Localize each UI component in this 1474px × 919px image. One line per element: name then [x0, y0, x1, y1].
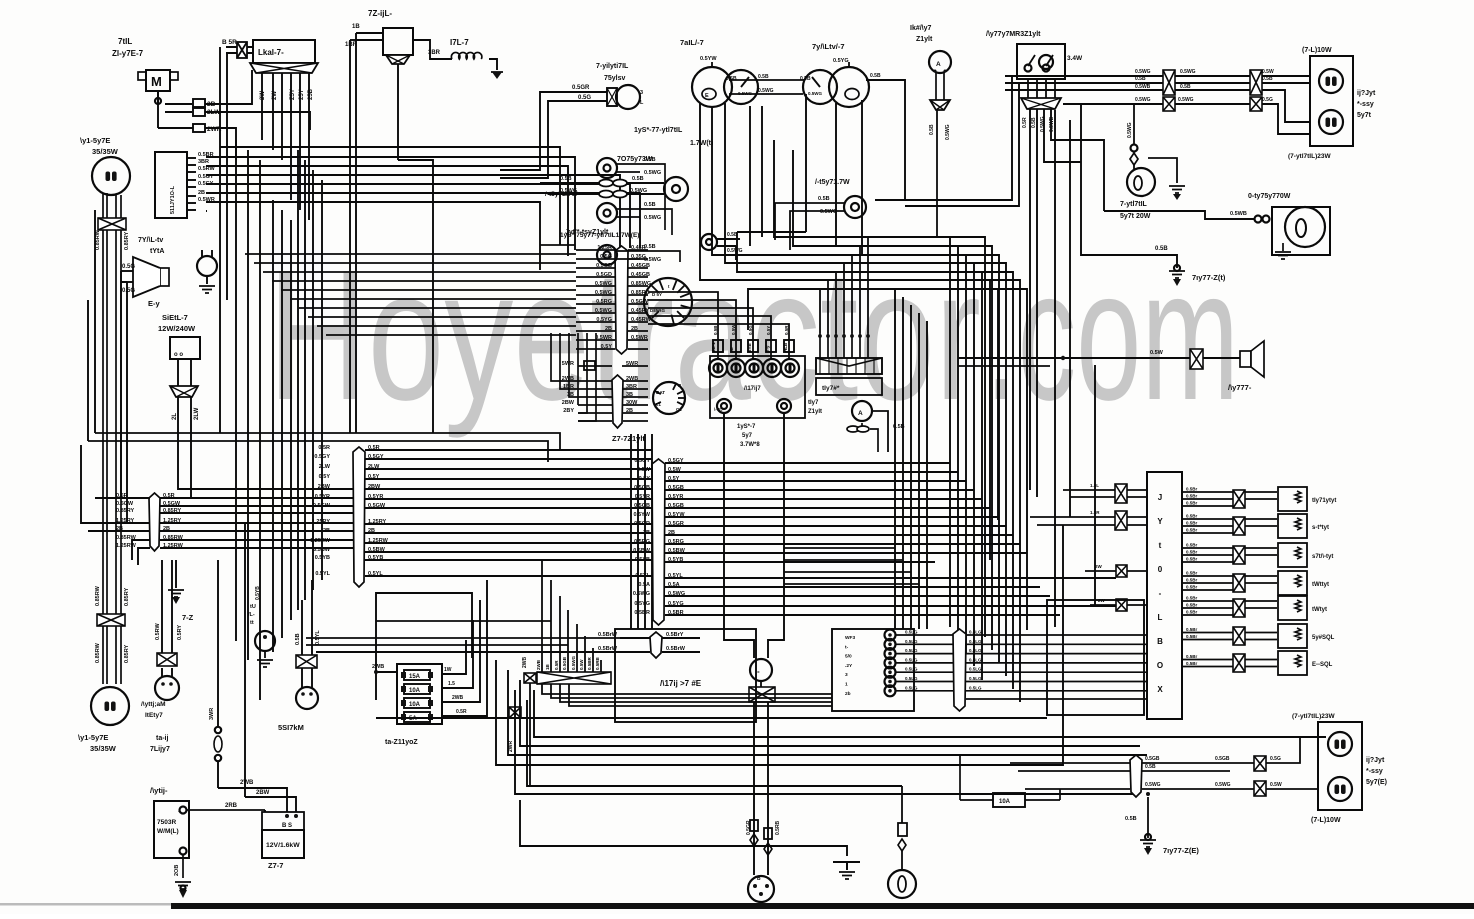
svg-text:0.5BW: 0.5BW	[313, 547, 331, 553]
highgrip terminal labels	[711, 342, 788, 352]
svg-text:0.5W: 0.5W	[637, 467, 651, 473]
svg-text:2WB: 2WB	[240, 780, 254, 786]
svg-text:5SI7kM: 5SI7kM	[278, 723, 304, 732]
svg-text:L: L	[1158, 613, 1163, 622]
svg-text:s-t*tyt: s-t*tyt	[1312, 525, 1329, 531]
wire backup 1	[1029, 109, 1031, 490]
connector 5WR	[584, 361, 595, 370]
svg-text:tIy71ytyt: tIy71ytyt	[1312, 498, 1336, 504]
svg-text:0.5WG: 0.5WG	[1135, 69, 1151, 75]
svg-text:B: B	[757, 876, 761, 882]
svg-text:0.5B: 0.5B	[800, 76, 811, 82]
svg-text:0.5YR: 0.5YR	[368, 494, 383, 500]
wire maze run 4	[737, 232, 1013, 689]
svg-text:WF3: WF3	[845, 635, 855, 641]
tail10W label left	[1311, 817, 1341, 824]
svg-text:0.5LG: 0.5LG	[905, 639, 918, 644]
svg-text:0.5GB: 0.5GB	[634, 503, 650, 509]
svg-text:7aIL/-7: 7aIL/-7	[680, 38, 704, 47]
svg-text:0.5YB: 0.5YB	[635, 557, 650, 563]
wire CN0 row 0.5R	[116, 493, 356, 499]
svg-text:2BW: 2BW	[562, 400, 575, 406]
rear comb label left	[1366, 757, 1387, 786]
temp sensor	[197, 250, 217, 293]
svg-text:2B: 2B	[631, 326, 638, 332]
wire glow relay drop	[398, 64, 433, 433]
starter label	[268, 861, 283, 870]
wire comb row 2B	[576, 326, 648, 332]
highgrip terminals bottom	[717, 399, 791, 413]
svg-text:0.5WG: 0.5WG	[644, 257, 661, 263]
svg-text:tWtyt: tWtyt	[1312, 607, 1327, 613]
svg-text:0.5W: 0.5W	[731, 324, 736, 335]
svg-text:0.5YG: 0.5YG	[668, 601, 684, 607]
wire bundle row R 2B	[643, 530, 1013, 536]
svg-text:o o: o o	[174, 352, 183, 358]
wire long y746	[520, 680, 1140, 746]
svg-text:0.5LG: 0.5LG	[969, 685, 982, 690]
regulator label box	[253, 40, 315, 63]
wire step horiz 2	[784, 571, 911, 573]
wire relay row 4	[896, 667, 1147, 673]
svg-text:12W/240W: 12W/240W	[158, 324, 196, 333]
svg-text:7Y/\L-tv: 7Y/\L-tv	[138, 237, 163, 244]
svg-text:/\17ij7: /\17ij7	[744, 386, 761, 392]
svg-text:Zl-y7E-7: Zl-y7E-7	[112, 49, 144, 58]
wire buzzer lower	[958, 365, 1050, 367]
svg-text:0.5Br: 0.5Br	[1186, 610, 1198, 615]
wire fuse link to starter S	[218, 780, 287, 812]
svg-text:0.5R: 0.5R	[456, 709, 467, 715]
wire relay extra row	[966, 698, 1147, 700]
wire mid drop V1	[902, 297, 904, 629]
fender earth right label	[1192, 273, 1226, 282]
wire buzzer	[958, 350, 1190, 360]
wire right extra V1	[957, 246, 959, 640]
wire riser 0.5WG	[571, 624, 577, 672]
wire 2nd drop	[244, 523, 246, 797]
svg-text:0.5RW: 0.5RW	[155, 622, 161, 640]
wire comb row 1.25R	[576, 245, 648, 251]
svg-text:0.85WG: 0.85WG	[631, 281, 651, 287]
wire CN0 left leads	[81, 445, 150, 565]
wire row y211	[206, 210, 207, 212]
svg-text:2B: 2B	[605, 326, 612, 332]
wire check feed 1	[827, 280, 829, 333]
svg-text:ta-Z11yoZ: ta-Z11yoZ	[385, 739, 418, 746]
svg-text:0.5BW: 0.5BW	[668, 548, 686, 554]
svg-text:2RB: 2RB	[225, 803, 238, 809]
svg-text:3BR: 3BR	[626, 384, 637, 390]
working lamp box	[1272, 207, 1330, 255]
svg-text:0.5Br: 0.5Br	[1186, 634, 1198, 639]
wire maze run 1	[793, 150, 992, 650]
wire comb rows left	[500, 254, 576, 335]
wire bundle right bends	[0, 0, 1, 1]
wire bundle row R 0.5RG	[634, 539, 1020, 545]
indicator turnsignal left label	[560, 232, 639, 239]
svg-text:0.5YL: 0.5YL	[315, 571, 330, 577]
sensor row 7 connector	[1233, 654, 1245, 672]
working lamp label	[1248, 193, 1291, 200]
svg-text:SiEtL-7: SiEtL-7	[162, 313, 188, 322]
turnsignal23W label left	[1292, 713, 1335, 720]
noto lamp label L	[545, 191, 578, 198]
svg-text:0.5W: 0.5W	[668, 467, 682, 473]
main shift back switch label	[910, 25, 933, 43]
wire relay row 1	[896, 639, 1147, 645]
svg-text:0.85RW: 0.85RW	[163, 535, 184, 541]
svg-text:2B: 2B	[163, 526, 170, 532]
sensor row 6 connector	[1233, 627, 1245, 645]
wire 5WR row	[562, 361, 648, 367]
wire meter drops	[700, 94, 862, 275]
svg-text:/\ytij-: /\ytij-	[150, 786, 168, 795]
svg-text:0.5GY: 0.5GY	[634, 458, 650, 464]
svg-text:0.5WG: 0.5WG	[595, 281, 612, 287]
svg-text:/\y77y7MR3Z1ylt: /\y77y7MR3Z1ylt	[986, 31, 1041, 38]
wire starter row 3B	[567, 392, 648, 398]
svg-text:5YB: 5YB	[747, 342, 752, 352]
wire generator to bundle	[178, 397, 355, 498]
wire bundle row R 0.5BW	[633, 548, 1027, 554]
wire comb row 0.5G	[576, 254, 648, 260]
sensor row 1 wires	[1182, 487, 1277, 507]
svg-text:0.5W: 0.5W	[1150, 350, 1164, 356]
fuse box label	[385, 739, 418, 746]
wire bundle row R 0.5GR	[634, 521, 1006, 527]
temp meter label	[812, 42, 845, 51]
wire starter row 1BR	[563, 384, 648, 390]
wire bundle row R 0.5YL	[635, 573, 1116, 579]
svg-text:0.5Br: 0.5Br	[1186, 654, 1198, 659]
svg-text:0.5GW: 0.5GW	[313, 503, 331, 509]
svg-text:0.5B: 0.5B	[1180, 84, 1191, 90]
svg-text:0.5GR: 0.5GR	[746, 820, 752, 835]
earth label	[182, 613, 194, 622]
svg-text:0.5LG: 0.5LG	[969, 676, 982, 681]
wire riser 0.5RB	[595, 656, 601, 672]
fuse 10A2	[401, 698, 433, 708]
sensor row 4 connector	[1233, 574, 1245, 592]
svg-text:1.25RW: 1.25RW	[163, 543, 184, 549]
wire row y166	[206, 166, 568, 256]
connector bar CN3	[615, 246, 628, 354]
wire to starter B	[245, 790, 296, 812]
connector rear left B	[1254, 781, 1266, 796]
svg-text:0.5GW: 0.5GW	[163, 501, 181, 507]
svg-text:E: E	[705, 93, 709, 99]
wire left bundle v2	[226, 53, 228, 300]
main shift back switch connector	[930, 100, 950, 110]
svg-text:(7-L)10W: (7-L)10W	[1311, 817, 1341, 824]
wire maze run 2	[712, 192, 999, 663]
svg-text:0.5WG: 0.5WG	[808, 91, 823, 96]
svg-text:0.5WG: 0.5WG	[758, 88, 774, 94]
sensor row 2 connector	[1233, 517, 1245, 535]
wire row y245	[540, 244, 575, 246]
svg-text:/-t5y71.7W: /-t5y71.7W	[815, 179, 850, 186]
svg-text:-: -	[1159, 589, 1162, 598]
wire comb row 0.5YG	[576, 317, 652, 323]
svg-text:0.5R: 0.5R	[318, 445, 330, 451]
svg-text:0.5B: 0.5B	[818, 196, 830, 202]
wire step horiz 0	[784, 547, 895, 549]
svg-text:W/M(L): W/M(L)	[157, 828, 179, 835]
noto lamp right	[775, 196, 866, 250]
svg-text:0.5GB: 0.5GB	[634, 485, 650, 491]
svg-text:/-t5y7L.7W: /-t5y7L.7W	[545, 191, 578, 198]
sensor row 2 wires	[1182, 514, 1277, 534]
svg-text:Lkal-7-: Lkal-7-	[258, 48, 284, 57]
svg-text:0.5GW: 0.5GW	[116, 501, 134, 507]
svg-text:0.5WG: 0.5WG	[1135, 97, 1151, 103]
starter rows left leads	[551, 333, 596, 421]
svg-text:7-yilyti7IL: 7-yilyti7IL	[596, 63, 629, 70]
wire check feed 0	[819, 289, 821, 333]
svg-text:0.5WG: 0.5WG	[820, 209, 837, 215]
svg-text:0.5WG: 0.5WG	[668, 591, 685, 597]
svg-text:0.5YW: 0.5YW	[668, 512, 685, 518]
wire center drop V0	[630, 434, 632, 629]
wire long y737	[534, 690, 1326, 737]
flasher leads	[500, 85, 607, 178]
svg-text:0.5B: 0.5B	[893, 424, 905, 430]
svg-text:0.5W: 0.5W	[1262, 69, 1274, 75]
svg-text:2B: 2B	[643, 530, 650, 536]
svg-text:1.25RY: 1.25RY	[368, 519, 386, 525]
svg-text:0.5B: 0.5B	[1125, 816, 1137, 822]
connector tail B	[1163, 97, 1175, 111]
wire long y765	[496, 525, 1063, 765]
rear comb lamp left box	[1318, 722, 1362, 810]
svg-text:-: -	[757, 667, 760, 676]
svg-text:0.5YW: 0.5YW	[700, 56, 717, 62]
svg-text:7y/\Ltv/-7: 7y/\Ltv/-7	[812, 42, 845, 51]
svg-text:0.5LG: 0.5LG	[905, 648, 918, 653]
svg-text:2B: 2B	[323, 528, 330, 534]
wire comb row 0.5RG	[576, 299, 649, 305]
wire mid drop V3	[918, 313, 920, 629]
wire left bundle V6	[272, 200, 274, 652]
wire y433 runs	[88, 433, 560, 462]
svg-text:0.5RY: 0.5RY	[177, 625, 183, 640]
wire center drop V3	[651, 434, 653, 629]
wire CN0 row 1.25RW	[116, 543, 356, 549]
wire turnsignal lamp drop	[1127, 104, 1138, 169]
wire maze run 3	[725, 202, 1006, 676]
svg-text:0.5R: 0.5R	[368, 445, 380, 451]
wire bundle row L 0.5YL	[315, 571, 652, 577]
svg-text:0.5Br: 0.5Br	[1186, 578, 1198, 583]
relay unit labels	[845, 635, 855, 697]
svg-text:0.5B: 0.5B	[1155, 246, 1168, 252]
svg-text:tt: tt	[250, 620, 254, 626]
svg-text:3.4W: 3.4W	[1067, 55, 1083, 62]
cb left row4	[1090, 598, 1147, 611]
working lamp bulb	[1285, 207, 1325, 247]
svg-text:tYtA: tYtA	[150, 248, 164, 255]
light control stubs	[187, 152, 216, 210]
svg-text:3BR: 3BR	[198, 159, 209, 165]
svg-text:0.5RG: 0.5RG	[634, 539, 650, 545]
svg-text:B S: B S	[282, 823, 292, 829]
wire riser 0.5GB	[562, 610, 568, 672]
wire mid drop V4	[926, 321, 928, 629]
svg-text:2LW: 2LW	[194, 407, 200, 420]
radiator connector	[295, 580, 321, 668]
wire box around cb feeds	[1047, 600, 1144, 715]
sensor row 4 label	[1312, 582, 1329, 588]
wire maze run 0	[774, 140, 985, 637]
wire CN0 row 2B	[116, 526, 356, 532]
svg-text:(7-L)10W: (7-L)10W	[1302, 47, 1332, 54]
sensor row 7 label	[1312, 662, 1333, 668]
svg-text:1.25RW: 1.25RW	[116, 543, 137, 549]
svg-text:0.5G: 0.5G	[748, 325, 753, 335]
svg-text:0.5YG: 0.5YG	[833, 58, 849, 64]
wire fender earth left	[1125, 792, 1150, 838]
wire riser 1B	[545, 580, 551, 672]
battery label	[150, 786, 168, 795]
svg-text:tB: tB	[729, 347, 734, 352]
svg-text:0.5LG: 0.5LG	[905, 657, 918, 662]
wire bundle row R 0.5BR	[634, 610, 1060, 616]
sensor row 4 box	[1278, 571, 1307, 595]
svg-text:0.5WB: 0.5WB	[1230, 211, 1247, 217]
wire left bundle v1	[219, 47, 221, 433]
svg-text:0.5WG: 0.5WG	[644, 215, 661, 221]
wire backup 4	[1051, 109, 1104, 211]
svg-text:\-7t7: \-7t7	[714, 407, 724, 412]
svg-text:1W: 1W	[444, 667, 452, 673]
sensor row 5 label	[1312, 607, 1327, 613]
headlamp left label	[78, 733, 117, 753]
rear lamp right bulb 2	[1319, 110, 1343, 134]
wire tail row3	[1005, 84, 1310, 122]
connector bar CN4	[612, 375, 623, 428]
svg-text:30W: 30W	[626, 400, 638, 406]
svg-text:0.5R: 0.5R	[1022, 117, 1028, 128]
svg-text:0.5YL: 0.5YL	[668, 573, 683, 579]
wire long y786	[527, 700, 902, 786]
fuse 10A box	[993, 793, 1025, 807]
wire bundle row R 0.5YW	[633, 512, 998, 518]
wire row y157	[206, 157, 575, 250]
wire right extra V5	[989, 280, 991, 560]
connector buzzer	[1190, 349, 1203, 369]
svg-text:0.5LG: 0.5LG	[969, 639, 982, 644]
wire CN0 row 0.85RY	[116, 508, 356, 514]
svg-text:0.5RB: 0.5RB	[595, 656, 600, 670]
svg-text:7-ytl7tIL: 7-ytl7tIL	[1120, 201, 1148, 208]
indicator lamp 1	[597, 157, 661, 178]
wire fender earth right feed	[1081, 105, 1177, 268]
svg-text:2B: 2B	[668, 530, 675, 536]
svg-text:1.5: 1.5	[448, 681, 455, 687]
wire highgrip feed 0	[648, 292, 723, 360]
wire upper horiz y621	[376, 620, 551, 622]
wire backup 2	[1036, 109, 1038, 497]
wire comb row 0.5WG	[576, 290, 650, 296]
svg-text:1: 1	[845, 682, 848, 688]
svg-text:2WB: 2WB	[626, 376, 638, 382]
svg-text:0.5B: 0.5B	[1262, 76, 1273, 82]
fuel meter	[692, 56, 758, 107]
svg-text:ij?Jyt: ij?Jyt	[1357, 90, 1376, 97]
svg-text:0.5B: 0.5B	[713, 325, 718, 335]
check unit box	[816, 378, 882, 395]
highgrip equip box	[615, 629, 756, 722]
wire highgrip feed 1	[648, 300, 741, 360]
svg-text:5y7(E): 5y7(E)	[1366, 779, 1387, 786]
svg-text:J: J	[1158, 493, 1162, 502]
wire check feed 6	[867, 237, 869, 333]
battery fluid connector	[155, 560, 183, 666]
wire riser 0.5R	[554, 596, 560, 672]
wire mid drop V0	[894, 289, 896, 629]
wire bundle row R 0.5W	[637, 467, 958, 473]
svg-text:0.5B: 0.5B	[726, 76, 737, 82]
svg-text:(7-ytl7tIL)23W: (7-ytl7tIL)23W	[1288, 153, 1331, 160]
relay unit box	[832, 629, 914, 711]
wire battery to starter	[187, 803, 265, 812]
svg-text:0.5WG: 0.5WG	[1180, 69, 1196, 75]
svg-text:0.5B: 0.5B	[929, 124, 935, 135]
svg-text:10A: 10A	[409, 702, 421, 708]
svg-text:Z1ylt: Z1ylt	[808, 409, 822, 415]
svg-text:5A: 5A	[409, 716, 417, 722]
turn signal lamp right	[1127, 168, 1155, 196]
svg-text:/\y777-: /\y777-	[1228, 383, 1252, 392]
ground battery	[175, 882, 191, 898]
wire CN0 row 0.5GW	[116, 501, 356, 507]
svg-text:7ıy77-Z(E): 7ıy77-Z(E)	[1163, 846, 1199, 855]
svg-text:0.5LG: 0.5LG	[905, 676, 918, 681]
indicator lamp 3	[597, 244, 661, 265]
svg-text:0.5GR: 0.5GR	[668, 521, 684, 527]
svg-text:0.5WG: 0.5WG	[727, 248, 743, 254]
svg-text:5WR: 5WR	[562, 361, 574, 367]
svg-text:0.5Br: 0.5Br	[1186, 501, 1198, 506]
svg-text:0.5Br: 0.5Br	[1186, 627, 1198, 632]
svg-text:tIy7: tIy7	[808, 400, 819, 406]
wire step horiz 3	[784, 583, 919, 585]
svg-text:3: 3	[640, 90, 643, 96]
glow relay label	[368, 9, 392, 18]
wire bundle row L 2LW	[319, 464, 652, 470]
wire mid drop V2	[910, 305, 912, 629]
svg-text:0.5YB: 0.5YB	[255, 586, 261, 600]
wire row y184	[206, 184, 630, 248]
wire headlamp right down A	[103, 193, 107, 684]
svg-text:0.5GB: 0.5GB	[562, 656, 567, 670]
svg-text:0.5Br: 0.5Br	[1186, 514, 1198, 519]
wire relay row 5	[896, 676, 1147, 682]
svg-text:0.5YR: 0.5YR	[668, 494, 683, 500]
starter switch label	[612, 434, 645, 443]
headlamp right label	[80, 136, 119, 156]
svg-text:0.5G: 0.5G	[1262, 97, 1273, 103]
wire tail row2	[1005, 76, 1310, 83]
sensor row 7 wires	[1182, 654, 1277, 667]
wire riser 0.5W	[579, 636, 585, 672]
svg-text:511JY1O-L: 511JY1O-L	[170, 185, 176, 214]
svg-text:Z1ylt: Z1ylt	[916, 36, 933, 43]
svg-text:0.5GY: 0.5GY	[368, 454, 384, 460]
connector plug B	[748, 876, 774, 902]
wire left bundle V11	[312, 170, 314, 590]
